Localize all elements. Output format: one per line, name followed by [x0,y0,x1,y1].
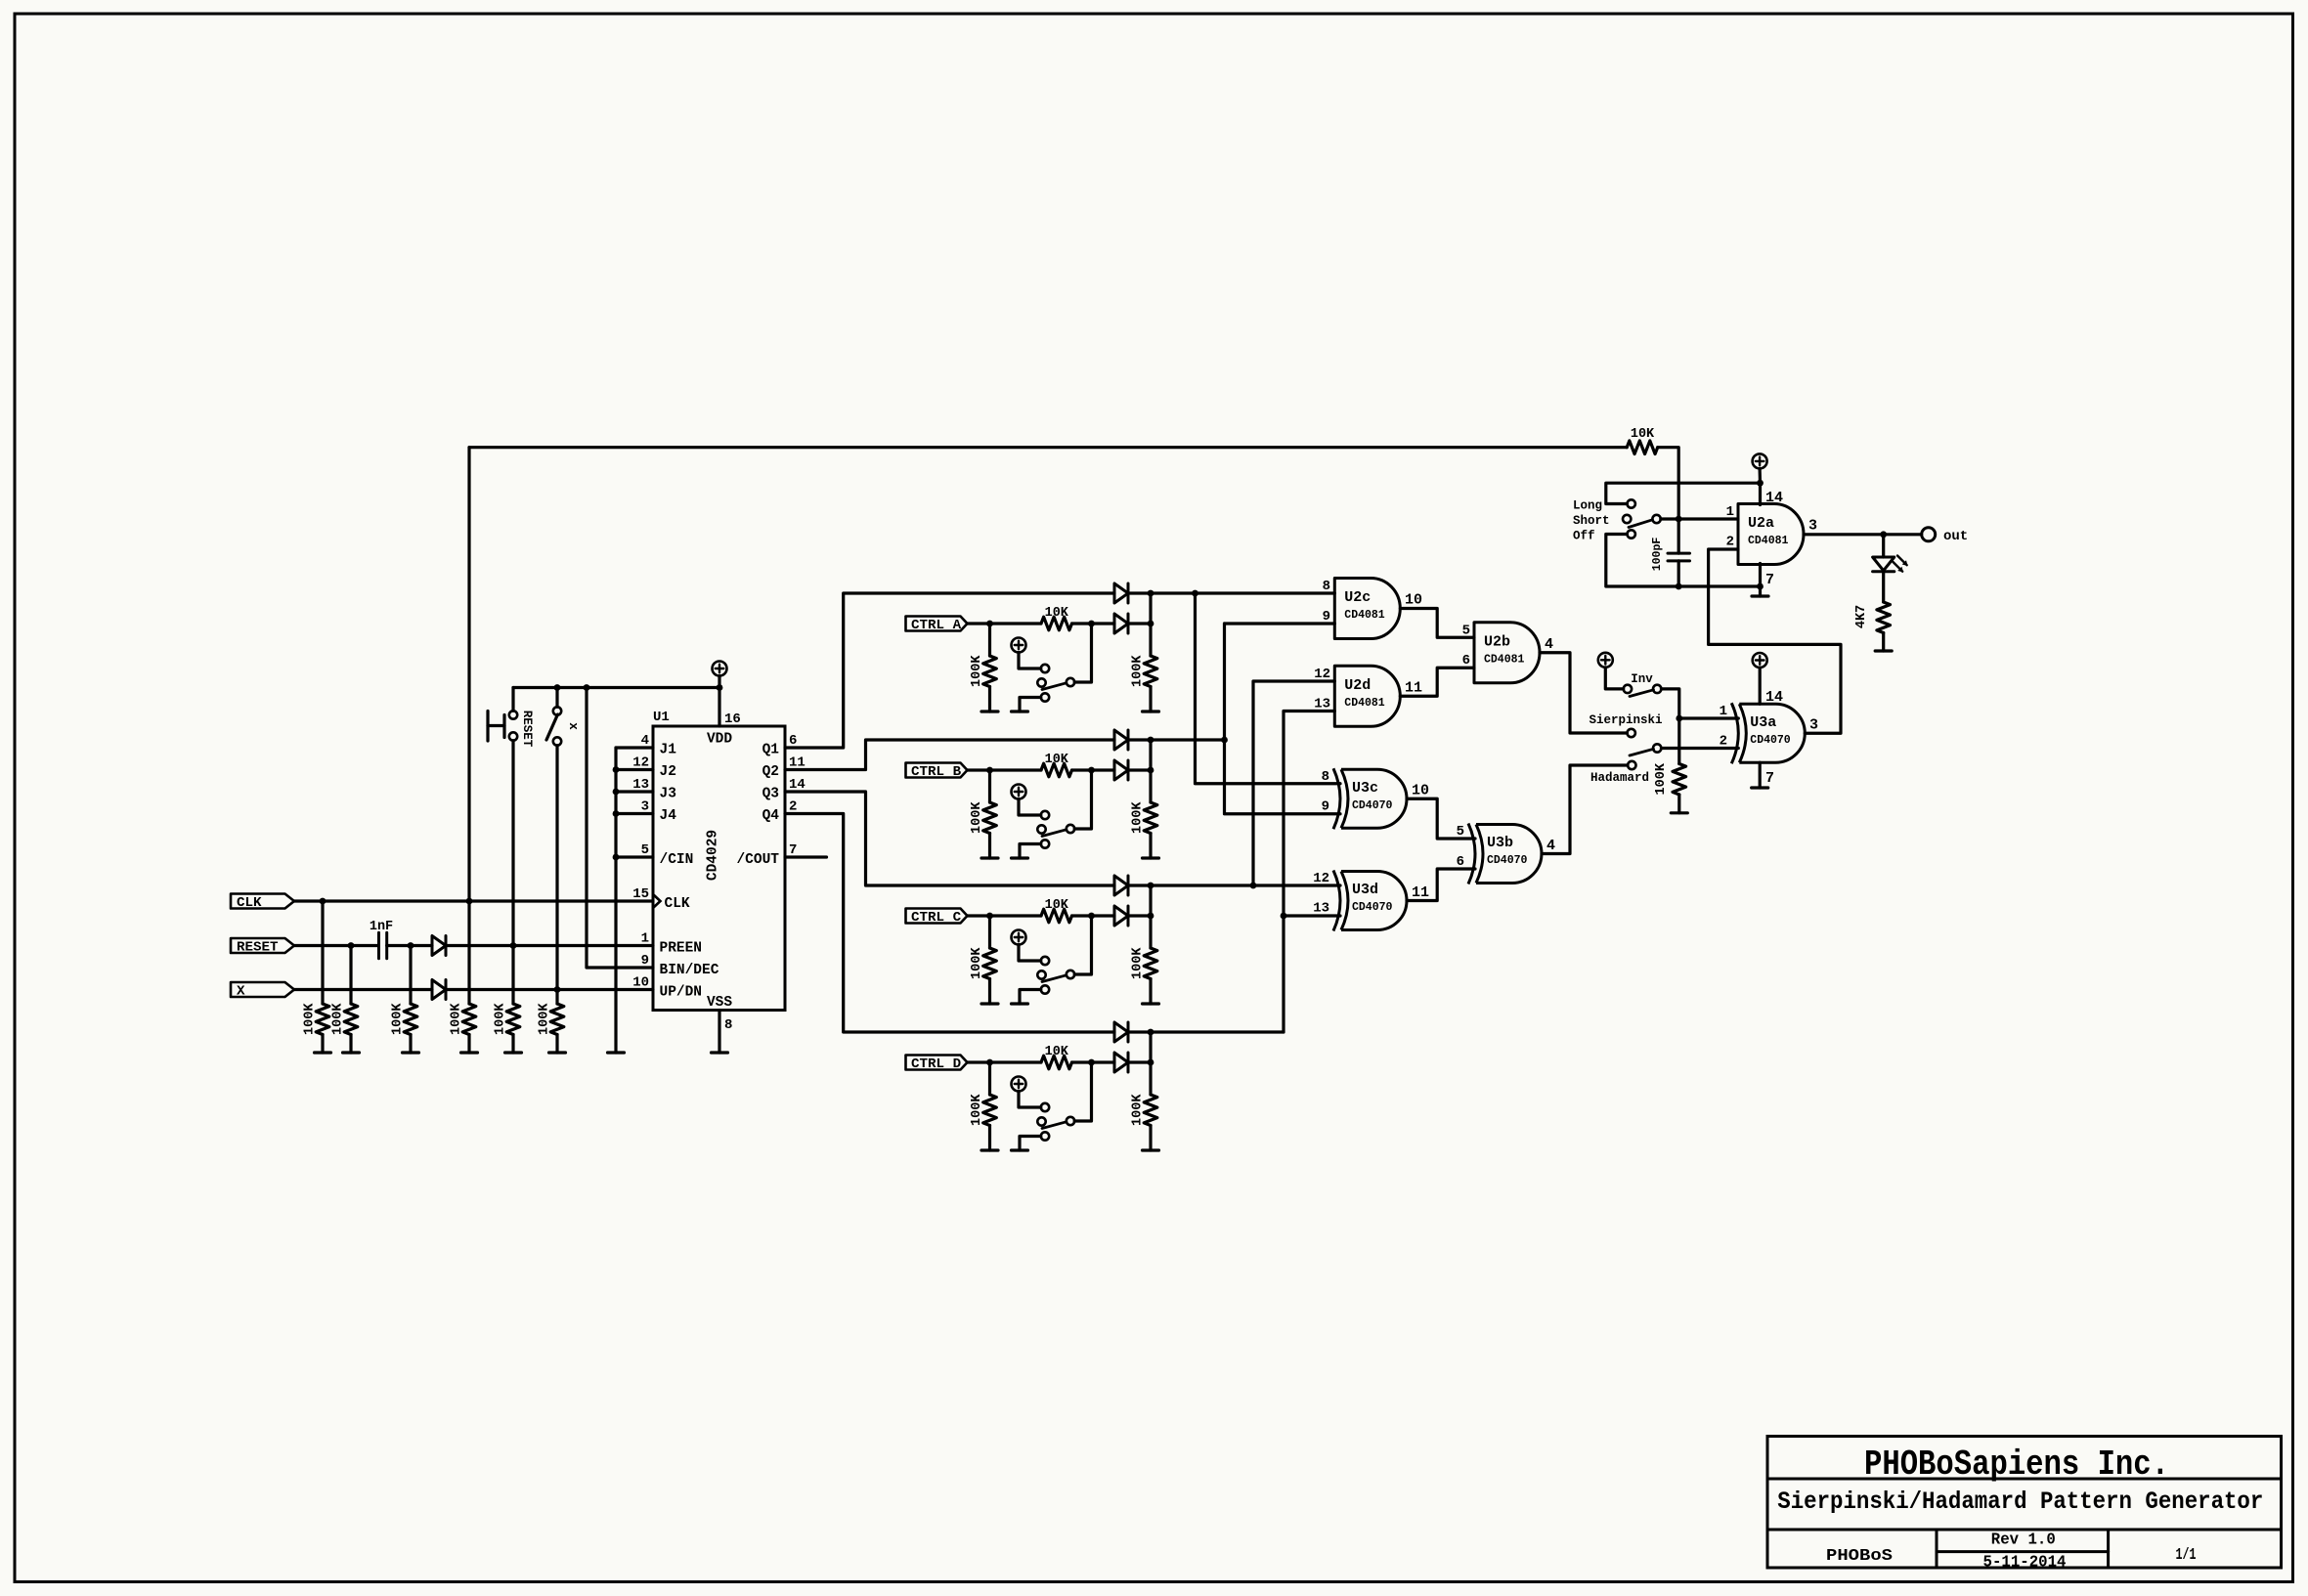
wire row B vertical [1225,624,1341,814]
wire UP/DN net [446,988,653,991]
op-amp U1 CD4029 counter [653,710,785,1011]
wire Long to pin14 rail [1606,483,1761,503]
switch row A [1020,665,1074,712]
svg-text:U3a: U3a [1750,714,1776,731]
wire SH common to U3a.2 [1661,747,1738,750]
svg-text:CD4070: CD4070 [1487,854,1528,867]
wire U3c.10 to U3b.5 [1407,798,1475,839]
wire upper diode out row C [1128,884,1151,886]
junction UPDN/x-switch [554,986,561,993]
ground row D node [1143,1148,1159,1151]
junction row D tap U3d.13 [1281,913,1287,920]
wire J1-J4 /CIN tie [613,748,653,1053]
wire CTRL D to 10K [968,1060,1042,1063]
svg-text:J2: J2 [660,764,676,780]
resistor 100K row B node pulldown [1131,740,1157,858]
svg-text:CD4081: CD4081 [1748,535,1789,547]
svg-text:PREEN: PREEN [660,941,703,957]
svg-text:15: 15 [632,886,649,902]
resistor 100K CLK pulldown [303,901,329,1053]
wire row D to U3d.13 [1284,914,1340,917]
junction CTRL B pulldown [986,767,993,774]
svg-text:CD4070: CD4070 [1750,734,1791,747]
ground CTRL B pulldown [981,856,998,859]
svg-text:10K: 10K [1631,427,1655,442]
title author [1826,1547,1893,1566]
svg-text:14: 14 [1765,490,1783,506]
power Inv switch [1598,653,1624,689]
diode D1 [432,936,446,956]
svg-text:100K: 100K [303,1003,318,1035]
ground row A node [1143,710,1159,712]
power U3a [1753,653,1783,706]
svg-text:100K: 100K [538,1003,552,1035]
svg-text:Rev 1.0: Rev 1.0 [1991,1531,2056,1550]
wire CTRL C to 10K [968,914,1042,917]
svg-text:CD4029: CD4029 [706,830,721,881]
resistor 100K feedback node pulldown [450,901,476,1053]
title date [1983,1554,2067,1573]
junction CTRL A pulldown [986,621,993,627]
resistor 100K row A node pulldown [1131,593,1157,712]
resistor 10K row D [1041,1045,1114,1069]
diode row D lower [1114,1053,1128,1072]
ground feedback node pulldown [461,1051,478,1054]
svg-text:BIN/DEC: BIN/DEC [660,963,719,978]
op-amp U2c CD4081 AND [1323,579,1422,639]
svg-text:CLK: CLK [665,896,690,912]
wire U2b.4 to Sierpinski [1540,653,1628,733]
ground UP/DN pulldown [549,1051,566,1054]
junction CTRL D pulldown [986,1059,993,1066]
junction row A node lower [1148,621,1154,627]
svg-text:12: 12 [1314,667,1330,682]
wire Q3 to row C [785,792,1114,885]
junction RESET/R2 [348,942,355,949]
junction U3a.1 [1676,715,1682,722]
junction out/LED [1880,531,1887,538]
resistor 100K row D node pulldown [1131,1032,1157,1150]
svg-text:X: X [237,983,245,999]
ground CTRL A pulldown [981,710,998,712]
wire common to U2a.1 [1661,517,1738,520]
wire /COUT stub [785,855,827,858]
svg-text:100K: 100K [970,1094,984,1126]
svg-text:U2b: U2b [1484,633,1510,650]
diode D2 [432,980,446,1000]
junction row B node lower [1148,767,1154,774]
wire Q4 to row D [785,814,1114,1033]
resistor 100K UP/DN pulldown [538,990,564,1054]
connector X [231,982,294,999]
title sheet [2176,1546,2197,1565]
ground CTRL D pulldown [981,1148,998,1151]
svg-text:100K: 100K [450,1003,464,1035]
junction row D node lower [1148,1059,1154,1066]
wire Inv to U3a.1 [1661,689,1678,718]
wire diode out row D [1128,1060,1151,1063]
power row D switch [1012,1077,1041,1108]
wire row A node to U2c.8 [1151,591,1334,594]
svg-text:RESET: RESET [237,939,279,955]
connector CTRL C [906,909,968,926]
wire row B node [1151,738,1225,741]
wire BINDEC from rail [587,688,653,969]
op-amp U2a CD4081 AND [1726,504,1817,565]
U1 pin numbers [632,712,806,1033]
svg-text:CD4081: CD4081 [1344,609,1385,622]
svg-text:3: 3 [1809,717,1818,734]
junction rail/x-switch [554,684,561,691]
switch Long/Short/Off [1573,499,1661,543]
svg-text:Inv: Inv [1631,672,1653,686]
svg-text:7: 7 [1765,770,1774,787]
wire diode out row A [1128,622,1151,625]
svg-text:6: 6 [1462,653,1470,669]
svg-text:10K: 10K [1045,753,1069,767]
wire U2d.11 to U2b.6 [1400,668,1474,696]
svg-text:14: 14 [1765,689,1783,706]
wire row D vertical [1284,712,1334,1033]
resistor 100K CTRL C pulldown [970,916,996,1004]
svg-text:PHOBoSapiens Inc.: PHOBoSapiens Inc. [1864,1445,2169,1485]
power U2a [1753,453,1783,506]
svg-text:U1: U1 [653,710,670,725]
svg-text:10K: 10K [1045,1045,1069,1059]
svg-text:1: 1 [641,931,649,947]
svg-text:Short: Short [1573,514,1610,528]
wire x-switch top [555,688,558,708]
ground RESET pulldown [343,1051,360,1054]
pushbutton RESET [488,711,534,748]
junction PREEN/RESET-button [510,942,517,949]
svg-text:2: 2 [1726,535,1734,550]
connector CTRL B [906,763,968,780]
svg-text:16: 16 [724,712,741,727]
diode row D upper [1114,1022,1128,1042]
resistor 100K PREEN pulldown [494,946,520,1054]
op-amp U3c CD4070 XOR [1322,768,1429,829]
svg-text:11: 11 [1405,680,1422,697]
resistor 100K RESET pulldown [331,946,358,1054]
junction 10K/switch row A [1088,621,1095,627]
ground U3a.1 pulldown [1671,811,1687,814]
resistor 100K CTRL B pulldown [970,770,996,858]
wire diode out row B [1128,768,1151,771]
svg-text:100K: 100K [331,1003,346,1035]
svg-text:100K: 100K [970,655,984,687]
junction common/cap [1676,516,1682,523]
svg-text:U2a: U2a [1748,515,1774,532]
ground CTRL C pulldown [981,1002,998,1005]
diode row B lower [1114,760,1128,780]
svg-text:x: x [566,722,580,730]
svg-text:100K: 100K [494,1003,508,1035]
resistor 10K row A [1041,606,1114,630]
diode row A lower [1114,614,1128,633]
svg-text:out: out [1943,529,1968,544]
resistor 10K feedback [469,427,1678,519]
resistor 100K CTRL A pulldown [970,624,996,712]
svg-text:J3: J3 [660,787,676,802]
switch Inv [1624,672,1662,697]
wire U3d.11 to U3b.6 [1407,869,1475,901]
resistor 100K row C node pulldown [1131,885,1157,1004]
svg-text:U2c: U2c [1344,589,1371,606]
op-amp U3a CD4070 XOR [1720,703,1818,763]
wire row D node [1151,1030,1284,1033]
power row C switch [1012,930,1041,962]
op-amp U2d CD4081 AND [1314,666,1422,726]
svg-text:UP/DN: UP/DN [660,985,703,1001]
svg-text:/CIN: /CIN [660,852,694,868]
wire Off to ground rail [1606,535,1761,587]
junction row C tap [1250,883,1257,889]
wire CTRL B to 10K [968,768,1042,771]
ground J-pins [608,1051,625,1054]
svg-text:100K: 100K [1654,762,1669,795]
svg-text:PHOBoS: PHOBoS [1826,1547,1893,1566]
svg-text:4: 4 [1545,636,1553,653]
wire upper diode out row D [1128,1030,1151,1033]
node out [1922,528,1969,544]
capacitor 100pF [1651,519,1690,586]
svg-text:Sierpinski: Sierpinski [1589,713,1662,727]
junction pin14/Long [1757,480,1764,487]
ground row C node [1143,1002,1159,1005]
diode row A upper [1114,583,1128,603]
svg-text:10: 10 [1405,592,1422,609]
svg-text:U3d: U3d [1352,882,1378,898]
svg-text:100K: 100K [970,947,984,979]
ground row C switch [1012,1002,1028,1005]
wire row B to U2c.9 [1225,622,1335,625]
junction row C node upper [1148,883,1154,889]
resistor 10K row C [1041,898,1114,923]
capacitor 1nF [370,920,393,959]
svg-text:CD4070: CD4070 [1352,901,1393,914]
resistor 100K CTRL D pulldown [970,1062,996,1150]
ground row D switch [1012,1148,1028,1151]
wire RESET to C1 [294,944,378,947]
switch row C [1020,957,1074,1004]
svg-text:J4: J4 [660,808,677,824]
svg-text:4K7: 4K7 [1854,605,1869,628]
junction row B node upper [1148,737,1154,744]
diode row B upper [1114,730,1128,750]
resistor 100K U3a.1 pulldown [1654,718,1686,813]
junction 10K/switch row B [1088,767,1095,774]
svg-text:100K: 100K [1131,655,1146,687]
ground row B node [1143,856,1159,859]
connector CTRL A [906,617,968,633]
junction CLK/10K feedback [466,898,473,905]
wire switch common row B [1074,770,1091,829]
title company [1864,1445,2169,1485]
ground 4K7 [1875,649,1892,652]
svg-text:10K: 10K [1045,898,1069,913]
ground U2a pin7 [1752,564,1774,597]
svg-text:100K: 100K [970,801,984,834]
svg-text:Q2: Q2 [762,764,779,780]
resistor 4K7 [1854,572,1891,651]
junction rail/pin16 [717,684,723,691]
svg-text:11: 11 [1412,884,1429,901]
svg-text:J1: J1 [660,743,677,758]
ground after-cap pulldown [403,1051,419,1054]
svg-text:CD4081: CD4081 [1344,697,1385,710]
ground CLK pulldown [315,1051,331,1054]
svg-text:13: 13 [1314,697,1330,712]
wire U3a.3 to U2a.2 [1709,549,1841,733]
svg-text:100K: 100K [391,1003,406,1035]
junction C1/R3 [408,942,414,949]
wire U3a.1 input [1679,716,1739,719]
wire VSS pin 8 [718,1011,720,1054]
wire upper diode out row B [1128,738,1151,741]
svg-text:9: 9 [641,953,649,969]
ground VSS [712,1051,728,1054]
junction Off/cap [1676,583,1682,590]
svg-text:3: 3 [1808,518,1817,535]
title name [1777,1488,2263,1516]
wire row A to U3c.8 [1196,593,1341,784]
switch x [546,707,580,745]
junction row A node upper [1148,590,1154,597]
op-amp U2b CD4081 AND [1462,623,1553,683]
wire RESET button drop [511,688,514,712]
junction 10K/switch row D [1088,1059,1095,1066]
wire U3b.4 to Hadamard [1542,765,1628,854]
title rev [1991,1531,2056,1550]
junction row D node upper [1148,1029,1154,1036]
svg-text:Long: Long [1573,499,1602,513]
title block frame [1767,1437,2282,1569]
resistor 100K after-cap pulldown [391,946,417,1054]
svg-text:RESET: RESET [520,711,534,748]
svg-text:4: 4 [1546,838,1555,854]
connector CLK [231,894,294,911]
svg-text:Hadamard: Hadamard [1590,771,1649,785]
junction row A tap [1192,590,1198,597]
svg-text:CLK: CLK [237,895,262,911]
power row B switch [1012,785,1041,816]
svg-text:10: 10 [1412,783,1429,799]
wire switch common row D [1074,1062,1091,1121]
junction pin7/Off [1757,583,1764,590]
svg-text:CTRL D: CTRL D [911,1057,961,1072]
svg-text:100K: 100K [1131,1094,1146,1126]
svg-text:1/1: 1/1 [2176,1546,2197,1565]
svg-text:1nF: 1nF [370,920,393,934]
wire feedback vertical [467,448,470,901]
switch Sierpinski/Hadamard [1630,744,1661,755]
wire PREEN net [446,944,653,947]
svg-text:5-11-2014: 5-11-2014 [1983,1554,2067,1573]
power VDD U1 [713,662,727,727]
wire row C node to U3d.12 [1151,884,1340,886]
svg-text:100pF: 100pF [1651,538,1664,572]
svg-text:100K: 100K [1131,801,1146,834]
wire VDD rail U1 [513,686,719,689]
svg-text:8: 8 [1322,769,1329,785]
svg-text:CTRL A: CTRL A [911,618,962,633]
ground row B switch [1012,856,1028,859]
wire x-switch to UPDN [555,746,558,990]
switch row B [1020,811,1074,858]
junction row B tap [1221,737,1228,744]
svg-text:8: 8 [724,1017,732,1033]
wire diode out row C [1128,914,1151,917]
node Sierpinski [1589,713,1662,737]
svg-text:U2d: U2d [1344,677,1371,694]
wire switch common row C [1074,916,1091,974]
resistor 10K row B [1041,753,1114,777]
svg-text:U3b: U3b [1487,835,1513,851]
svg-text:/COUT: /COUT [736,852,779,868]
svg-text:CD4070: CD4070 [1352,799,1393,812]
junction CTRL C pulldown [986,913,993,920]
wire RESET button to PREEN [511,741,514,946]
switch row D [1020,1103,1074,1150]
svg-text:VSS: VSS [707,995,732,1011]
svg-text:Q1: Q1 [762,743,780,758]
svg-text:VDD: VDD [707,732,732,748]
svg-text:Sierpinski/Hadamard Pattern Ge: Sierpinski/Hadamard Pattern Generator [1777,1488,2263,1516]
svg-text:10K: 10K [1045,606,1069,621]
diode row C upper [1114,876,1128,895]
svg-text:CTRL B: CTRL B [911,764,962,780]
connector RESET [231,938,294,955]
wire X to D2 [294,988,432,991]
op-amp U3b CD4070 XOR [1457,824,1555,884]
wire upper diode out row A [1128,591,1151,594]
wire CTRL A to 10K [968,622,1042,625]
svg-text:CD4081: CD4081 [1484,653,1525,666]
svg-text:Q3: Q3 [762,787,779,802]
svg-text:100K: 100K [1131,947,1146,979]
LED [1873,535,1908,573]
wire CLK net [294,899,653,902]
svg-text:7: 7 [1765,572,1774,588]
svg-text:8: 8 [1323,579,1330,594]
svg-text:9: 9 [1323,609,1330,625]
wire U2c.10 to U2b.5 [1400,609,1474,638]
svg-text:12: 12 [1313,871,1329,886]
wire Q2 to row B [785,740,1114,770]
svg-text:CTRL C: CTRL C [911,910,962,926]
svg-text:13: 13 [1313,901,1329,917]
junction CLK/R1 [320,898,327,905]
svg-text:Q4: Q4 [762,808,780,824]
op-amp U3d CD4070 XOR [1313,871,1429,931]
svg-text:U3c: U3c [1352,780,1378,797]
wire Q1 to row A [785,593,1114,748]
wire switch common row A [1074,624,1091,682]
junction row C node lower [1148,913,1154,920]
svg-text:10: 10 [632,975,649,991]
wire C1 to D1 [387,944,432,947]
svg-text:Off: Off [1573,530,1595,543]
diode row C lower [1114,906,1128,926]
wire row C to U2d.12 [1253,681,1334,885]
junction rail/BINDEC [584,684,590,691]
ground U3a pin7 [1752,762,1774,788]
svg-text:9: 9 [1322,799,1329,815]
connector CTRL D [906,1056,968,1072]
junction 10K/switch row C [1088,913,1095,920]
power row A switch [1012,638,1041,669]
